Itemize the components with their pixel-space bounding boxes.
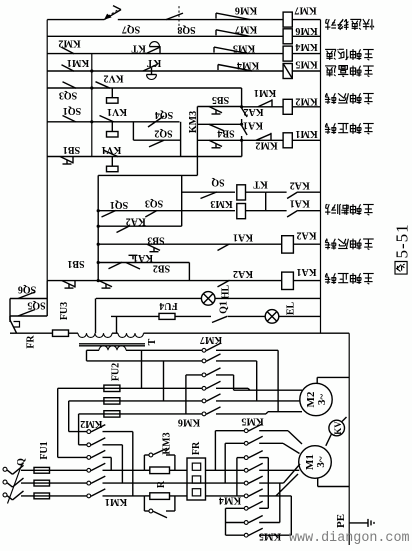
svg-text:HL: HL	[221, 284, 232, 299]
svg-text:EL: EL	[286, 302, 297, 316]
svg-text:SQ3: SQ3	[145, 198, 163, 209]
svg-text:FU4: FU4	[159, 300, 177, 311]
svg-text:KM1: KM1	[295, 128, 317, 139]
svg-text:KA2: KA2	[244, 106, 264, 117]
svg-text:www.diangon.com: www.diangon.com	[289, 531, 410, 546]
svg-text:KM5: KM5	[295, 58, 317, 69]
svg-text:KM7: KM7	[235, 23, 257, 34]
svg-text:KA1: KA1	[297, 266, 317, 277]
svg-text:SQ6: SQ6	[18, 284, 36, 295]
svg-text:T: T	[147, 338, 158, 345]
svg-text:KM4: KM4	[237, 59, 259, 70]
svg-text:FR: FR	[191, 441, 202, 455]
svg-text:KM6: KM6	[295, 25, 317, 36]
svg-text:SQ3: SQ3	[59, 90, 77, 101]
svg-text:KM4: KM4	[295, 41, 317, 52]
svg-text:KA1: KA1	[133, 252, 153, 263]
svg-text:KM2: KM2	[255, 140, 277, 151]
svg-text:Q1: Q1	[219, 301, 230, 314]
svg-text:SQ5: SQ5	[27, 300, 45, 311]
svg-text:SQ: SQ	[211, 177, 225, 188]
svg-text:KM6: KM6	[235, 5, 257, 16]
svg-text:FR: FR	[26, 335, 37, 349]
svg-text:KM5: KM5	[233, 43, 255, 54]
svg-text:KV1: KV1	[101, 144, 121, 155]
svg-text:KV2: KV2	[104, 72, 124, 83]
svg-text:KM3: KM3	[188, 111, 199, 133]
svg-text:KV: KV	[333, 421, 343, 435]
svg-text:KM3: KM3	[162, 432, 173, 454]
svg-text:SQ4: SQ4	[155, 109, 173, 120]
svg-text:SB4: SB4	[217, 127, 234, 138]
svg-text:SB1: SB1	[67, 258, 84, 269]
svg-text:SQ1: SQ1	[110, 199, 128, 210]
svg-text:SQ1: SQ1	[63, 105, 81, 116]
svg-text:KM5: KM5	[259, 531, 281, 542]
svg-text:KA1: KA1	[290, 198, 310, 209]
svg-text:Q: Q	[16, 458, 27, 466]
svg-text:KM2: KM2	[58, 38, 80, 49]
svg-text:KV1: KV1	[107, 106, 127, 117]
svg-text:3~: 3~	[316, 394, 328, 406]
svg-text:KM6: KM6	[178, 417, 200, 428]
svg-text:KM4: KM4	[219, 495, 241, 506]
svg-text:SQ2: SQ2	[154, 128, 172, 139]
svg-text:SB5: SB5	[212, 94, 229, 105]
svg-text:KA2: KA2	[233, 268, 253, 279]
svg-text:KM7: KM7	[294, 5, 316, 16]
svg-text:KA2: KA2	[297, 230, 317, 241]
svg-text:SB1: SB1	[63, 144, 80, 155]
svg-text:FU3: FU3	[59, 302, 70, 320]
svg-text:FU1: FU1	[39, 441, 50, 459]
svg-text:KA1: KA1	[243, 120, 263, 131]
svg-text:KT: KT	[131, 42, 146, 53]
svg-text:KM1: KM1	[254, 87, 276, 98]
svg-text:KM2: KM2	[295, 96, 317, 107]
svg-text:KM1: KM1	[105, 496, 127, 507]
svg-text:SQ8: SQ8	[177, 24, 195, 35]
svg-text:SB3: SB3	[147, 234, 164, 245]
svg-text:KA2: KA2	[126, 215, 146, 226]
svg-text:5-51: 5-51	[393, 223, 412, 258]
svg-text:KT: KT	[253, 179, 268, 190]
svg-text:KA1: KA1	[233, 232, 253, 243]
svg-text:KM3: KM3	[210, 198, 232, 209]
svg-text:R: R	[156, 480, 167, 488]
svg-text:KM1: KM1	[67, 57, 89, 68]
svg-text:KA2: KA2	[290, 179, 310, 190]
svg-text:SB2: SB2	[153, 263, 170, 274]
svg-text:3~: 3~	[315, 456, 327, 468]
svg-text:KT: KT	[146, 57, 161, 68]
svg-text:FU2: FU2	[111, 363, 122, 381]
svg-text:PE: PE	[335, 514, 347, 528]
svg-text:SQ7: SQ7	[122, 24, 140, 35]
